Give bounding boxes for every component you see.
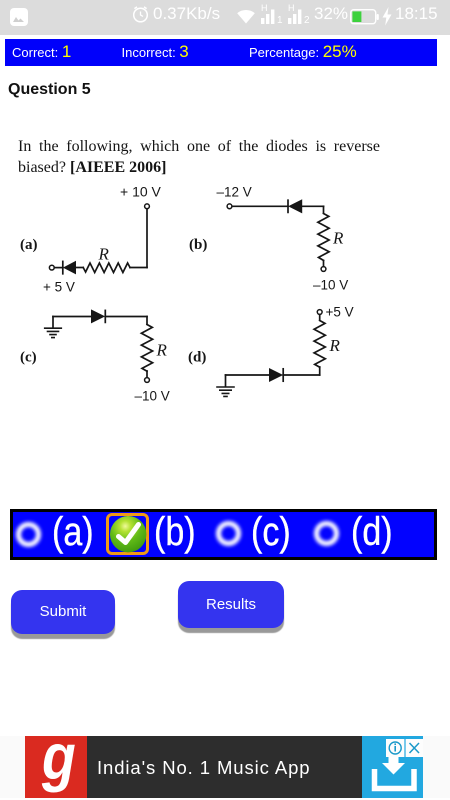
wire b corner down [323, 206, 325, 213]
results button [178, 581, 284, 628]
wire d horizontal right [283, 374, 320, 376]
svg-text:R: R [156, 341, 168, 360]
option label (c) [251, 509, 291, 555]
resistor R (c) vertical [141, 325, 152, 372]
options bar [10, 509, 437, 560]
gaana logo red square [25, 736, 87, 798]
svg-text:(c): (c) [20, 350, 37, 366]
status bar battery [350, 9, 379, 25]
ad install blue square [362, 736, 423, 798]
svg-text:R: R [332, 229, 344, 248]
status bar signal2 [288, 3, 295, 13]
status bar percent [314, 4, 348, 24]
svg-text:R: R [98, 245, 110, 264]
wire a horiz stub [130, 267, 147, 269]
svg-text:(b): (b) [189, 237, 207, 253]
download icon [362, 736, 423, 798]
svg-text:+5 V: +5 V [326, 305, 354, 320]
wire d horizontal left [226, 374, 270, 376]
ad middle dark strip [87, 736, 363, 798]
question text [18, 136, 380, 179]
terminal a-top [145, 204, 150, 209]
wire d vertical to corner [319, 367, 321, 375]
ad text [97, 757, 310, 779]
option label (b) [154, 509, 196, 555]
terminal b-bottom [321, 267, 326, 272]
status bar screenshot icon [10, 8, 28, 26]
wire d top stub [319, 315, 321, 320]
terminal c-bottom [145, 378, 150, 383]
svg-text:–10 V: –10 V [135, 389, 170, 404]
svg-text:g: g [41, 736, 76, 793]
radio (d) [314, 521, 339, 546]
status bar clock icon [131, 5, 150, 24]
wire a vertical [146, 209, 148, 268]
svg-text:+ 10 V: + 10 V [120, 184, 162, 200]
terminal a-left [49, 265, 54, 270]
svg-text:(a): (a) [20, 237, 38, 253]
radio (c) [216, 521, 241, 546]
wire c corner down [146, 317, 148, 325]
radio (a) [16, 522, 41, 547]
question number [8, 81, 91, 99]
diode D (a) points left [76, 267, 84, 269]
status bar time [395, 4, 438, 24]
status bar speed text [153, 4, 220, 24]
ground (c) [52, 317, 54, 328]
wire c horizontal [53, 316, 92, 318]
svg-text:(d): (d) [188, 350, 206, 366]
wire b bottom stub [323, 261, 325, 267]
status bar lightning [382, 7, 392, 26]
svg-text:R: R [329, 336, 341, 355]
ground (d) [217, 387, 234, 396]
submit button [11, 590, 115, 634]
wire d corner down [225, 375, 227, 386]
option label (d) [351, 509, 393, 555]
resistor R (b) vertical [318, 214, 329, 261]
resistor R (d) vertical [314, 321, 325, 368]
circuit figure [0, 180, 450, 410]
wire c bottom stub [146, 371, 148, 377]
ad banner background strip [0, 736, 450, 798]
status bar [0, 0, 450, 35]
svg-text:+ 5 V: + 5 V [43, 280, 75, 295]
status bar wifi icon [236, 9, 256, 24]
wire b horizontal [232, 205, 288, 207]
terminal b-left [227, 204, 232, 209]
svg-text:–12 V: –12 V [217, 185, 252, 200]
status bar signal1 [261, 3, 268, 13]
option label (a) [52, 509, 94, 555]
diode D (c) points right [92, 310, 105, 322]
diode D (d) points right [282, 369, 284, 381]
terminal d-top [317, 310, 322, 315]
adchoices box [386, 739, 424, 757]
svg-text:–10 V: –10 V [313, 278, 348, 293]
stats blue bar [5, 39, 437, 66]
check icon (b) [106, 513, 149, 556]
diode D (b) points left [287, 200, 289, 212]
resistor R (a) [83, 263, 130, 273]
